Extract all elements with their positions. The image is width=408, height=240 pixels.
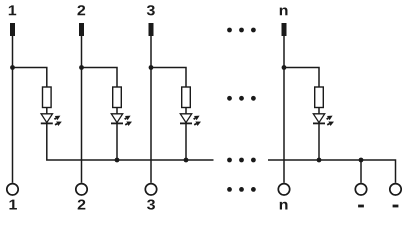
terminal label 1 (top) [9, 5, 16, 15]
wire: branch from node to resistor R1 [13, 68, 47, 88]
terminal circle minus 1 [355, 184, 366, 195]
wire: resistor R3 to LED D3 [185, 108, 187, 114]
junction node channel 1 branch tap [10, 65, 15, 70]
terminal circle n (bottom) [278, 184, 289, 195]
wire: resistor R2 to LED D2 [116, 108, 118, 114]
wire: channel n vertical from pin n to terminal circle n [283, 36, 285, 183]
terminal pin n [282, 23, 287, 36]
wire: resistor R1 to LED D1 [46, 108, 48, 114]
wire: resistor R4 to LED D4 [318, 108, 320, 114]
junction node: LED D2 branch joins bus [115, 158, 120, 163]
terminal circle minus 2 [390, 184, 401, 195]
junction node channel 3 branch tap [149, 65, 154, 70]
ellipsis dots (resistor level row) [227, 96, 256, 101]
wire: LED D3 down to negative bus [185, 123, 187, 160]
wire: LED D2 down to negative bus [116, 123, 118, 160]
wire: negative bus right segment with corner down to last minus terminal [268, 160, 396, 183]
wire: branch from node to resistor R2 [82, 68, 118, 88]
ellipsis dots (bottom terminals row) [227, 187, 256, 192]
wire: channel 1 vertical from pin 1 to terminal circle 1 [12, 36, 14, 183]
junction node channel 2 branch tap [79, 65, 84, 70]
terminal label 3 (bottom) [147, 199, 155, 209]
terminal label minus 2 [393, 205, 399, 208]
resistor R3 [182, 87, 191, 108]
terminal label n (top) [280, 7, 288, 15]
wire: channel 2 vertical from pin 2 to terminal circle 2 [81, 36, 83, 183]
wire: branch from node to resistor R4 [284, 68, 319, 88]
terminal circle 1 (bottom) [7, 184, 18, 195]
wire: branch from node to resistor R3 [151, 68, 186, 88]
resistor R2 [113, 87, 122, 108]
junction node channel n branch tap [282, 65, 287, 70]
junction node: LED D3 branch joins bus [184, 158, 189, 163]
LED D4 [313, 114, 334, 126]
wire: channel 3 vertical from pin 3 to terminal circle 3 [150, 36, 152, 183]
wire: bus down to first minus terminal circle [360, 160, 362, 183]
junction node: LED D4 branch joins bus [317, 158, 322, 163]
terminal pin 3 [149, 23, 154, 36]
terminal label 3 (top) [147, 5, 155, 15]
terminal label 1 (bottom) [9, 200, 16, 210]
terminal label minus 1 [358, 205, 364, 208]
LED D3 [180, 114, 201, 126]
wire: LED D1 down to negative bus (corner) [47, 123, 214, 160]
wire: LED D4 down to negative bus [318, 123, 320, 160]
resistor R4 [315, 87, 324, 108]
terminal label 2 (bottom) [78, 199, 86, 209]
ellipsis dots (top pins row) [227, 28, 256, 33]
terminal pin 2 [79, 23, 84, 36]
terminal circle 2 (bottom) [76, 184, 87, 195]
ellipsis dots (bus level row) [227, 158, 256, 163]
LED D1 [41, 114, 62, 126]
terminal label n (bottom) [280, 202, 288, 210]
junction node: first minus terminal on bus [359, 158, 364, 163]
LED D2 [111, 114, 132, 126]
terminal circle 3 (bottom) [145, 184, 156, 195]
terminal label 2 (top) [77, 5, 85, 15]
terminal pin 1 [10, 23, 15, 36]
resistor R1 [43, 87, 52, 108]
